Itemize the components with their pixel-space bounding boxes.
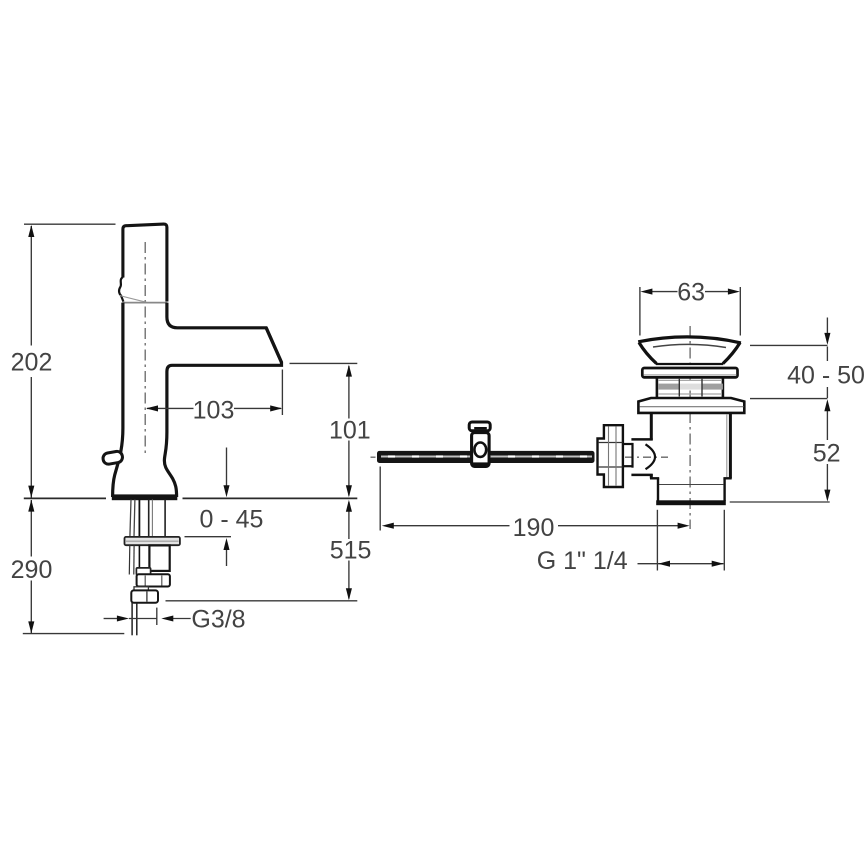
svg-text:290: 290 xyxy=(11,556,53,584)
svg-text:G3/8: G3/8 xyxy=(191,605,245,633)
svg-text:515: 515 xyxy=(330,537,372,565)
svg-text:202: 202 xyxy=(11,349,53,377)
svg-text:63: 63 xyxy=(677,279,705,307)
svg-text:G 1" 1/4: G 1" 1/4 xyxy=(537,547,628,575)
svg-text:40 - 50: 40 - 50 xyxy=(787,362,865,390)
svg-text:52: 52 xyxy=(813,440,841,468)
svg-text:101: 101 xyxy=(329,417,371,445)
svg-text:190: 190 xyxy=(513,514,555,542)
svg-text:103: 103 xyxy=(193,397,235,425)
svg-text:0 - 45: 0 - 45 xyxy=(200,506,264,534)
